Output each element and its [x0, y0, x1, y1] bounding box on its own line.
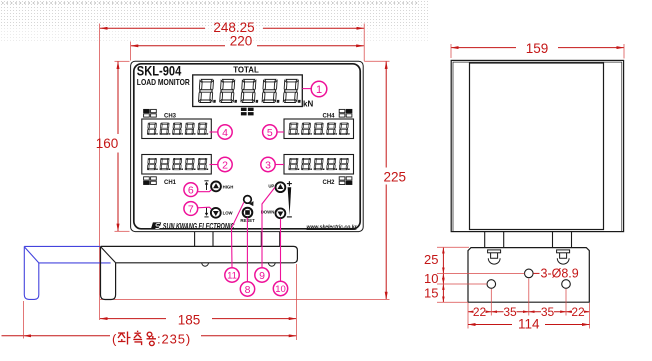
svg-text:10: 10: [424, 271, 438, 286]
svg-text:www.skelectric.co.kr: www.skelectric.co.kr: [307, 224, 358, 230]
svg-text:LOAD MONITOR: LOAD MONITOR: [137, 77, 190, 87]
svg-text::235): :235): [157, 332, 191, 347]
svg-text:114: 114: [518, 317, 540, 332]
svg-text:11: 11: [227, 271, 237, 282]
svg-text:3: 3: [265, 159, 271, 171]
svg-text:25: 25: [424, 252, 438, 267]
maker logo: [151, 222, 161, 229]
svg-text:CH1: CH1: [164, 180, 177, 186]
svg-text:5: 5: [267, 127, 273, 139]
TOTAL digits: [198, 79, 302, 102]
small pointer triangle: [249, 201, 254, 206]
callout 4: [218, 125, 232, 139]
svg-text:SUN KWANG ELECTRONIC: SUN KWANG ELECTRONIC: [163, 222, 235, 231]
leader 11: [232, 202, 244, 267]
gain needle icon: [287, 181, 292, 217]
CH3 digits: [147, 123, 209, 135]
dimension 220: [131, 34, 364, 49]
hole center: [525, 269, 534, 278]
extension line left (bracket left edge): [98, 24, 100, 321]
leader 1: [302, 88, 311, 90]
extension line 185 right: [295, 264, 297, 340]
svg-text:15: 15: [424, 286, 438, 301]
svg-text:2: 2: [222, 159, 228, 171]
dimension 225: [384, 61, 407, 299]
callout 2: [218, 157, 232, 171]
svg-text:35: 35: [503, 305, 517, 319]
label 3-diam 8.9: [533, 266, 579, 280]
CH1 digits: [147, 158, 209, 170]
extension line right: [363, 24, 365, 62]
leader 8: [246, 218, 248, 282]
dimension 114: [468, 317, 590, 332]
bracket notch left: [202, 263, 209, 266]
CH2 icon (bottom-right filled): [339, 177, 352, 185]
svg-text:kN: kN: [303, 99, 313, 108]
RESET button: [243, 208, 253, 218]
svg-text:22: 22: [473, 305, 487, 319]
thumb screw left: [488, 250, 501, 264]
front panel bezel: [134, 64, 360, 229]
zero LED circle: [244, 196, 252, 204]
CH1 display box: [142, 155, 212, 175]
svg-text:8: 8: [245, 284, 251, 296]
callout 3: [261, 157, 275, 171]
leader 4: [210, 131, 218, 133]
svg-text:9: 9: [259, 270, 265, 282]
svg-text:UP: UP: [268, 184, 274, 189]
svg-text:TOTAL: TOTAL: [233, 65, 259, 74]
CH3 icon (top-left filled): [144, 109, 157, 117]
side view inner frame line: [453, 62, 622, 231]
front panel outer edge: [131, 61, 364, 231]
DOWN button: [276, 208, 286, 218]
low marker icon: [204, 208, 208, 217]
dimension 160: [96, 61, 119, 231]
dither background band: [0, 0, 428, 27]
hole left: [487, 280, 496, 289]
CH4 display box: [284, 119, 354, 139]
leader 5: [277, 131, 284, 133]
hole right: [562, 280, 571, 289]
left dim stack 25/10/15: [424, 248, 443, 302]
extension lines 160: [115, 60, 130, 62]
HIGH button: [211, 182, 221, 192]
side view inner panel box: [470, 63, 604, 230]
svg-text:1: 1: [316, 84, 322, 96]
svg-text:225: 225: [384, 170, 407, 185]
side view feet: [485, 232, 572, 247]
callout 10: [273, 281, 287, 295]
panel rear posts: [195, 232, 280, 247]
CH4 icon (top-right filled): [339, 109, 352, 117]
bracket diagonal: [101, 247, 116, 263]
callout 5: [263, 125, 277, 139]
CH2 digits: [289, 158, 351, 170]
black bracket left bar: [101, 246, 116, 299]
svg-text:LOW: LOW: [223, 211, 234, 216]
svg-text:159: 159: [526, 41, 549, 56]
svg-text:160: 160: [96, 136, 119, 151]
side view outer box: [451, 60, 623, 231]
callout 11: [225, 268, 239, 282]
svg-text:CH2: CH2: [323, 180, 336, 186]
svg-text:6: 6: [188, 184, 194, 196]
extension lines 159: [450, 44, 452, 58]
TOTAL display box: [193, 75, 303, 107]
LOW button: [211, 208, 221, 218]
hole extension verticals: [468, 279, 590, 329]
callout 7: [184, 202, 198, 216]
extension line 235 left: [23, 301, 25, 339]
svg-text:HIGH: HIGH: [223, 184, 234, 189]
callout 1: [311, 81, 327, 97]
leader 6: [198, 190, 212, 192]
hangul left-side label (drawn strokes): [118, 331, 156, 346]
black bracket top edge: [101, 246, 298, 262]
extension lines left stack: [437, 247, 525, 302]
callout 9: [255, 268, 269, 282]
CH2 display box: [284, 155, 354, 175]
svg-text:220: 220: [230, 34, 253, 49]
blue left-side bracket: [24, 246, 110, 299]
svg-text:22: 22: [571, 305, 585, 319]
svg-text:185: 185: [178, 313, 201, 328]
CH1 icon (bottom-left filled): [144, 177, 157, 185]
extension lines 225: [364, 60, 389, 62]
svg-text:35: 35: [541, 305, 555, 319]
svg-text:7: 7: [188, 203, 194, 215]
svg-text:10: 10: [275, 284, 286, 295]
CH3 display box: [142, 119, 212, 139]
leader 7: [198, 207, 212, 209]
dimension 248.25: [100, 20, 364, 35]
high marker icon: [204, 181, 208, 190]
leader 10: [280, 219, 282, 281]
dimension (left-side:235): [2, 332, 297, 347]
bottom dims 22/35/35/22: [468, 305, 590, 319]
callout 8: [240, 282, 254, 296]
leader 2: [210, 164, 218, 166]
thumb screw right: [557, 250, 570, 264]
callout 6: [184, 183, 198, 197]
leader 9: [262, 188, 275, 268]
svg-text:(: (: [112, 332, 117, 347]
mounting plate: [468, 248, 589, 303]
svg-text:DOWN: DOWN: [261, 210, 275, 215]
UP button: [276, 182, 286, 192]
bracket notch right: [268, 263, 275, 266]
CH4 digits: [289, 123, 351, 135]
extension line 220 left: [130, 42, 132, 61]
svg-text:3-Ø8.9: 3-Ø8.9: [541, 266, 579, 280]
dimension 159: [451, 41, 624, 56]
leader 3: [275, 164, 284, 166]
dimension 185: [100, 313, 296, 328]
total quadrant icon (all filled): [241, 108, 254, 116]
svg-text:4: 4: [222, 127, 228, 139]
